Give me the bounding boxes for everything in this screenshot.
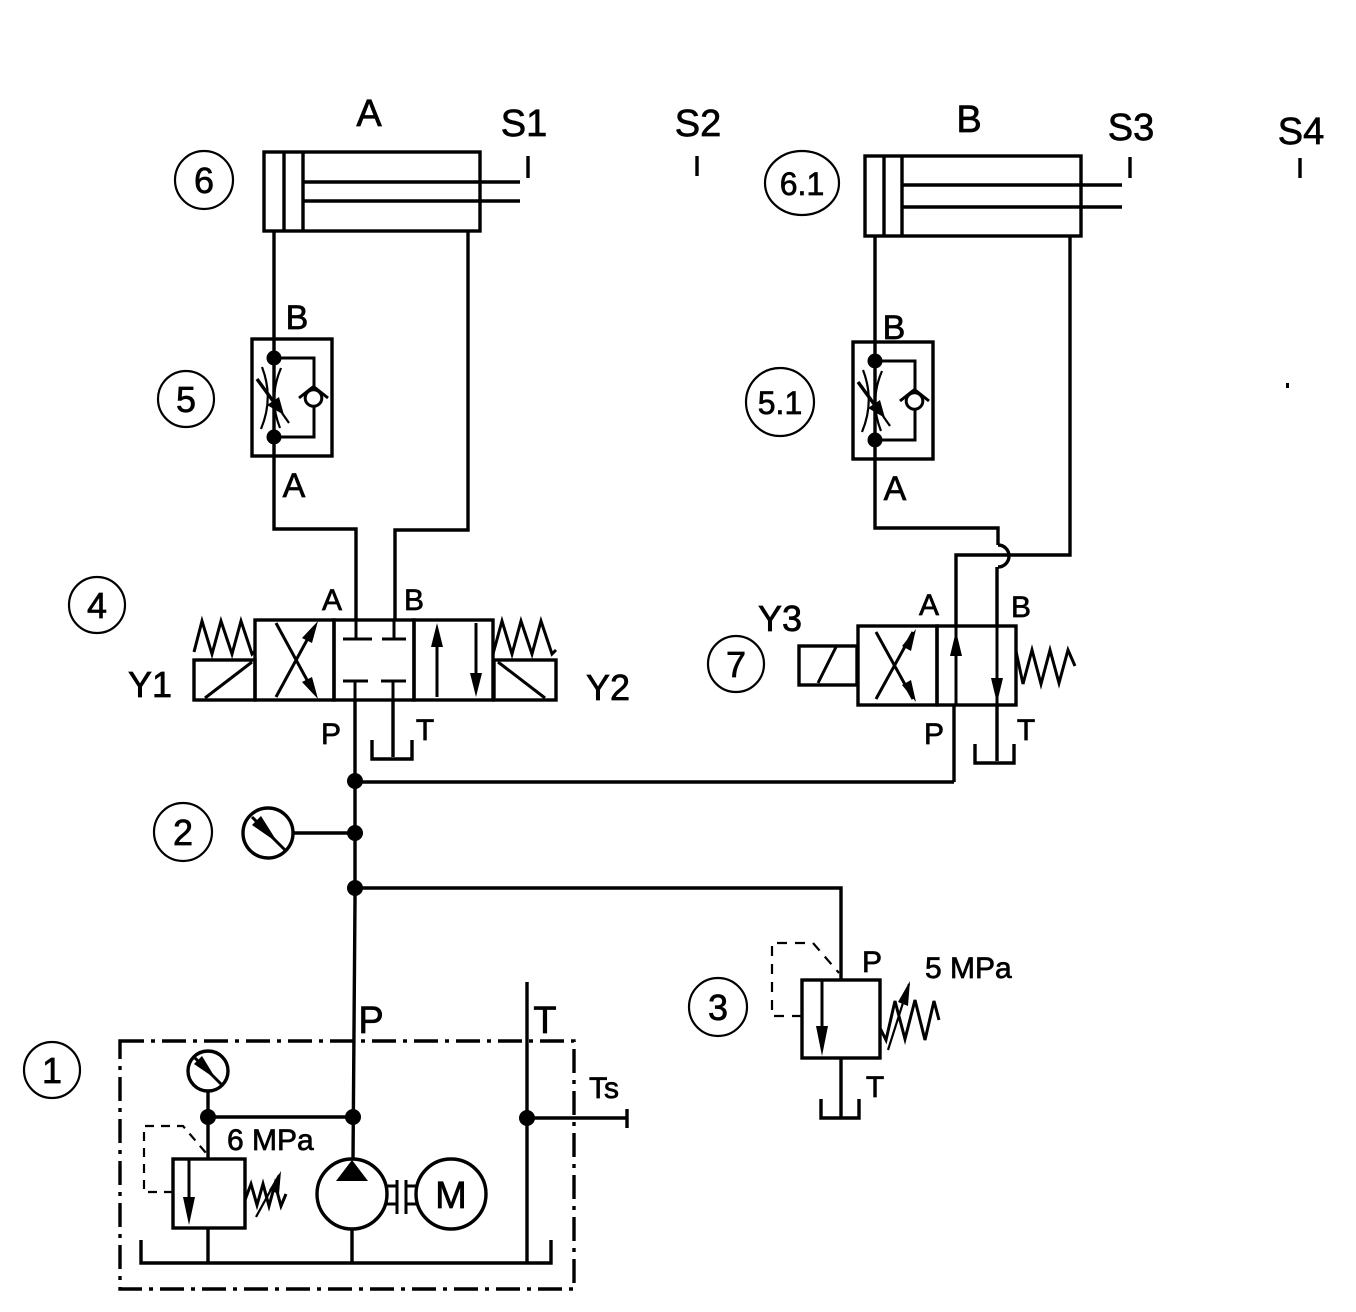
svg-text:4: 4: [87, 585, 107, 626]
valve 5.1 node dot A side: [868, 433, 883, 448]
wire node to valve 7 port P: [355, 780, 954, 783]
valve 5 adjust arrow: [257, 379, 289, 423]
relief valve 3 adjust arrow: [888, 981, 910, 1050]
svg-text:5 MPa: 5 MPa: [925, 952, 1012, 985]
svg-text:Y1: Y1: [128, 664, 172, 705]
valve 4 left spring: [194, 621, 255, 654]
relief valve 3 body: [802, 980, 880, 1058]
wire gauge to unit node: [206, 1091, 209, 1159]
wire valve 5 port A to valve 4 port A: [274, 457, 356, 620]
cylinder 6.1: [865, 156, 1122, 236]
reservoir manifold: [141, 1240, 551, 1263]
valve 5.1 check valve ball and seat: [900, 390, 929, 410]
svg-text:A: A: [283, 467, 306, 505]
svg-text:P: P: [321, 718, 341, 751]
Ts port tick: [625, 1109, 628, 1128]
power unit 1 boundary (dash-dot): [120, 1041, 574, 1289]
wire hop to valve 7 port B: [995, 567, 998, 626]
power unit relief valve flow arrow: [183, 1160, 195, 1225]
svg-text:B: B: [404, 584, 424, 617]
valve 5.1 throttle arcs: [862, 370, 882, 432]
relief valve 3 pilot dashed line: [772, 943, 839, 1016]
tank return line T: [525, 982, 528, 1263]
svg-text:T: T: [416, 714, 434, 747]
wire node to Ts port: [527, 1116, 627, 1119]
designator circle 1: [24, 1042, 80, 1098]
sensor S4 tick: [1298, 158, 1301, 178]
power unit relief valve tank drop: [206, 1228, 209, 1263]
valve 7 spring: [1016, 650, 1075, 684]
svg-text:S3: S3: [1108, 107, 1154, 149]
svg-text:B: B: [1011, 591, 1031, 624]
wire cylinder 6 rod-end to valve 4 port B: [395, 231, 468, 620]
wire cylinder 6.1 rod-end to valve 7 port A: [956, 236, 1070, 626]
svg-text:B: B: [883, 309, 906, 347]
valve 4 centre position blocked port A: [343, 620, 372, 639]
power unit relief valve pilot dashed line: [144, 1126, 206, 1192]
svg-text:B: B: [956, 99, 981, 141]
svg-text:P: P: [924, 718, 944, 751]
sensor S2 tick: [695, 156, 698, 176]
valve 4 right position down arrow: [470, 623, 482, 697]
valve 7 tank line T: [995, 705, 998, 761]
valve 4 tank line T: [391, 700, 394, 757]
svg-text:6: 6: [194, 160, 214, 201]
main pressure line from valve 4 P to pump: [353, 700, 355, 1160]
svg-text:P: P: [862, 946, 882, 979]
power unit gauge: [188, 1051, 228, 1091]
valve 4 right solenoid Y2: [494, 660, 556, 700]
wire node to relief valve 3 port P: [355, 888, 841, 980]
valve 4 right spring: [493, 621, 556, 654]
stray scan speck: [1286, 383, 1289, 388]
crossover hop arc: [998, 545, 1009, 567]
node junction Ts: [519, 1110, 535, 1126]
designator circle 5.1: [746, 368, 814, 436]
valve 4 centre position blocked port T: [381, 681, 406, 700]
valve 4 right position up arrow: [431, 623, 443, 697]
svg-text:T: T: [1017, 714, 1035, 747]
designator circle 2: [154, 803, 212, 861]
valve 5 throttle arcs: [261, 367, 281, 429]
relief valve 3 tank symbol: [821, 1099, 859, 1118]
wire valve 5.1 port A to valve 7 port B (with crossover hop): [875, 460, 998, 545]
wire gauge 2 to main line: [293, 831, 355, 834]
valve 7 body boxes (4/2 directional valve): [858, 626, 1016, 705]
svg-text:7: 7: [726, 644, 746, 685]
valve 5.1 node dot B side: [868, 354, 883, 369]
valve 4 centre position blocked port B: [382, 620, 406, 639]
wire unit node to pump line: [208, 1115, 353, 1118]
node junction gauge/relief: [200, 1109, 216, 1125]
svg-text:P: P: [358, 1000, 383, 1042]
svg-text:3: 3: [708, 987, 728, 1028]
svg-text:Y3: Y3: [758, 598, 802, 639]
power unit relief valve adjust arrow: [256, 1171, 281, 1217]
svg-text:6 MPa: 6 MPa: [227, 1124, 314, 1157]
svg-text:M: M: [435, 1175, 467, 1217]
node junction pump line: [345, 1109, 361, 1125]
valve 4 left position crossed arrows: [276, 621, 318, 699]
motor M: [416, 1159, 486, 1229]
svg-text:A: A: [322, 584, 342, 617]
svg-text:S4: S4: [1278, 111, 1324, 153]
node junction gauge 2: [347, 825, 363, 841]
valve 7 solenoid Y3: [799, 646, 857, 685]
valve 5 node dot B side: [267, 351, 282, 366]
svg-text:S2: S2: [675, 103, 721, 145]
svg-text:T: T: [866, 1071, 884, 1104]
valve 5.1 adjust arrow: [858, 382, 890, 426]
valve 7 right position up arrow (port A path): [950, 626, 962, 705]
designator circle 6: [175, 151, 233, 209]
designator circle 7: [708, 636, 764, 692]
valve 4 tank symbol: [372, 740, 412, 759]
relief valve 3 spring: [880, 1000, 939, 1040]
svg-text:A: A: [884, 470, 907, 508]
valve 7 right position down arrow (port B path): [991, 626, 1003, 705]
power unit relief valve body: [173, 1159, 245, 1228]
svg-text:A: A: [919, 589, 939, 622]
svg-text:B: B: [286, 299, 309, 337]
valve 5 node dot A side: [267, 430, 282, 445]
relief valve 3 tank line: [839, 1058, 842, 1117]
designator circle 4: [69, 577, 125, 633]
svg-text:T: T: [533, 1000, 556, 1042]
valve 4 left solenoid Y1: [194, 660, 255, 700]
valve 7 left position crossed arrows: [876, 629, 916, 702]
cylinder 6: [264, 152, 520, 231]
designator circle 6.1: [765, 151, 839, 215]
wire cylinder 6 cap-end to valve 5 port B: [272, 231, 275, 340]
wire cylinder 6.1 cap-end to valve 5.1 port B: [873, 236, 876, 343]
node junction P to valve 7: [347, 773, 363, 789]
svg-text:5: 5: [176, 379, 196, 420]
flow control valve 5.1 with check valve: [853, 342, 933, 459]
sensor S3 tick: [1128, 157, 1131, 178]
svg-text:Y2: Y2: [586, 667, 630, 708]
pump suction drop: [350, 1229, 353, 1263]
valve 5 check valve ball and seat: [299, 387, 328, 407]
svg-text:A: A: [356, 93, 382, 135]
designator circle 3: [689, 978, 747, 1036]
flow control valve 5 with check valve: [252, 339, 332, 456]
power unit relief valve spring: [245, 1184, 286, 1206]
wire valve 7 port P down: [952, 705, 955, 782]
valve 4 body boxes (4/3 directional valve): [255, 620, 493, 700]
valve 4 centre position blocked port P: [343, 681, 368, 700]
svg-text:6.1: 6.1: [780, 166, 824, 202]
svg-text:S1: S1: [501, 103, 547, 145]
pressure gauge 2: [243, 808, 293, 858]
svg-text:1: 1: [42, 1050, 62, 1091]
valve 7 tank symbol: [975, 744, 1014, 763]
sensor S1 tick: [526, 156, 529, 178]
svg-text:5.1: 5.1: [758, 385, 802, 421]
node junction to relief valve 3: [347, 880, 363, 896]
svg-text:2: 2: [173, 812, 193, 853]
designator circle 5: [158, 371, 214, 427]
svg-text:Ts: Ts: [589, 1072, 619, 1105]
relief valve 3 flow arrow: [816, 981, 828, 1056]
pump: [317, 1159, 387, 1229]
pump-motor coupling: [387, 1180, 416, 1214]
